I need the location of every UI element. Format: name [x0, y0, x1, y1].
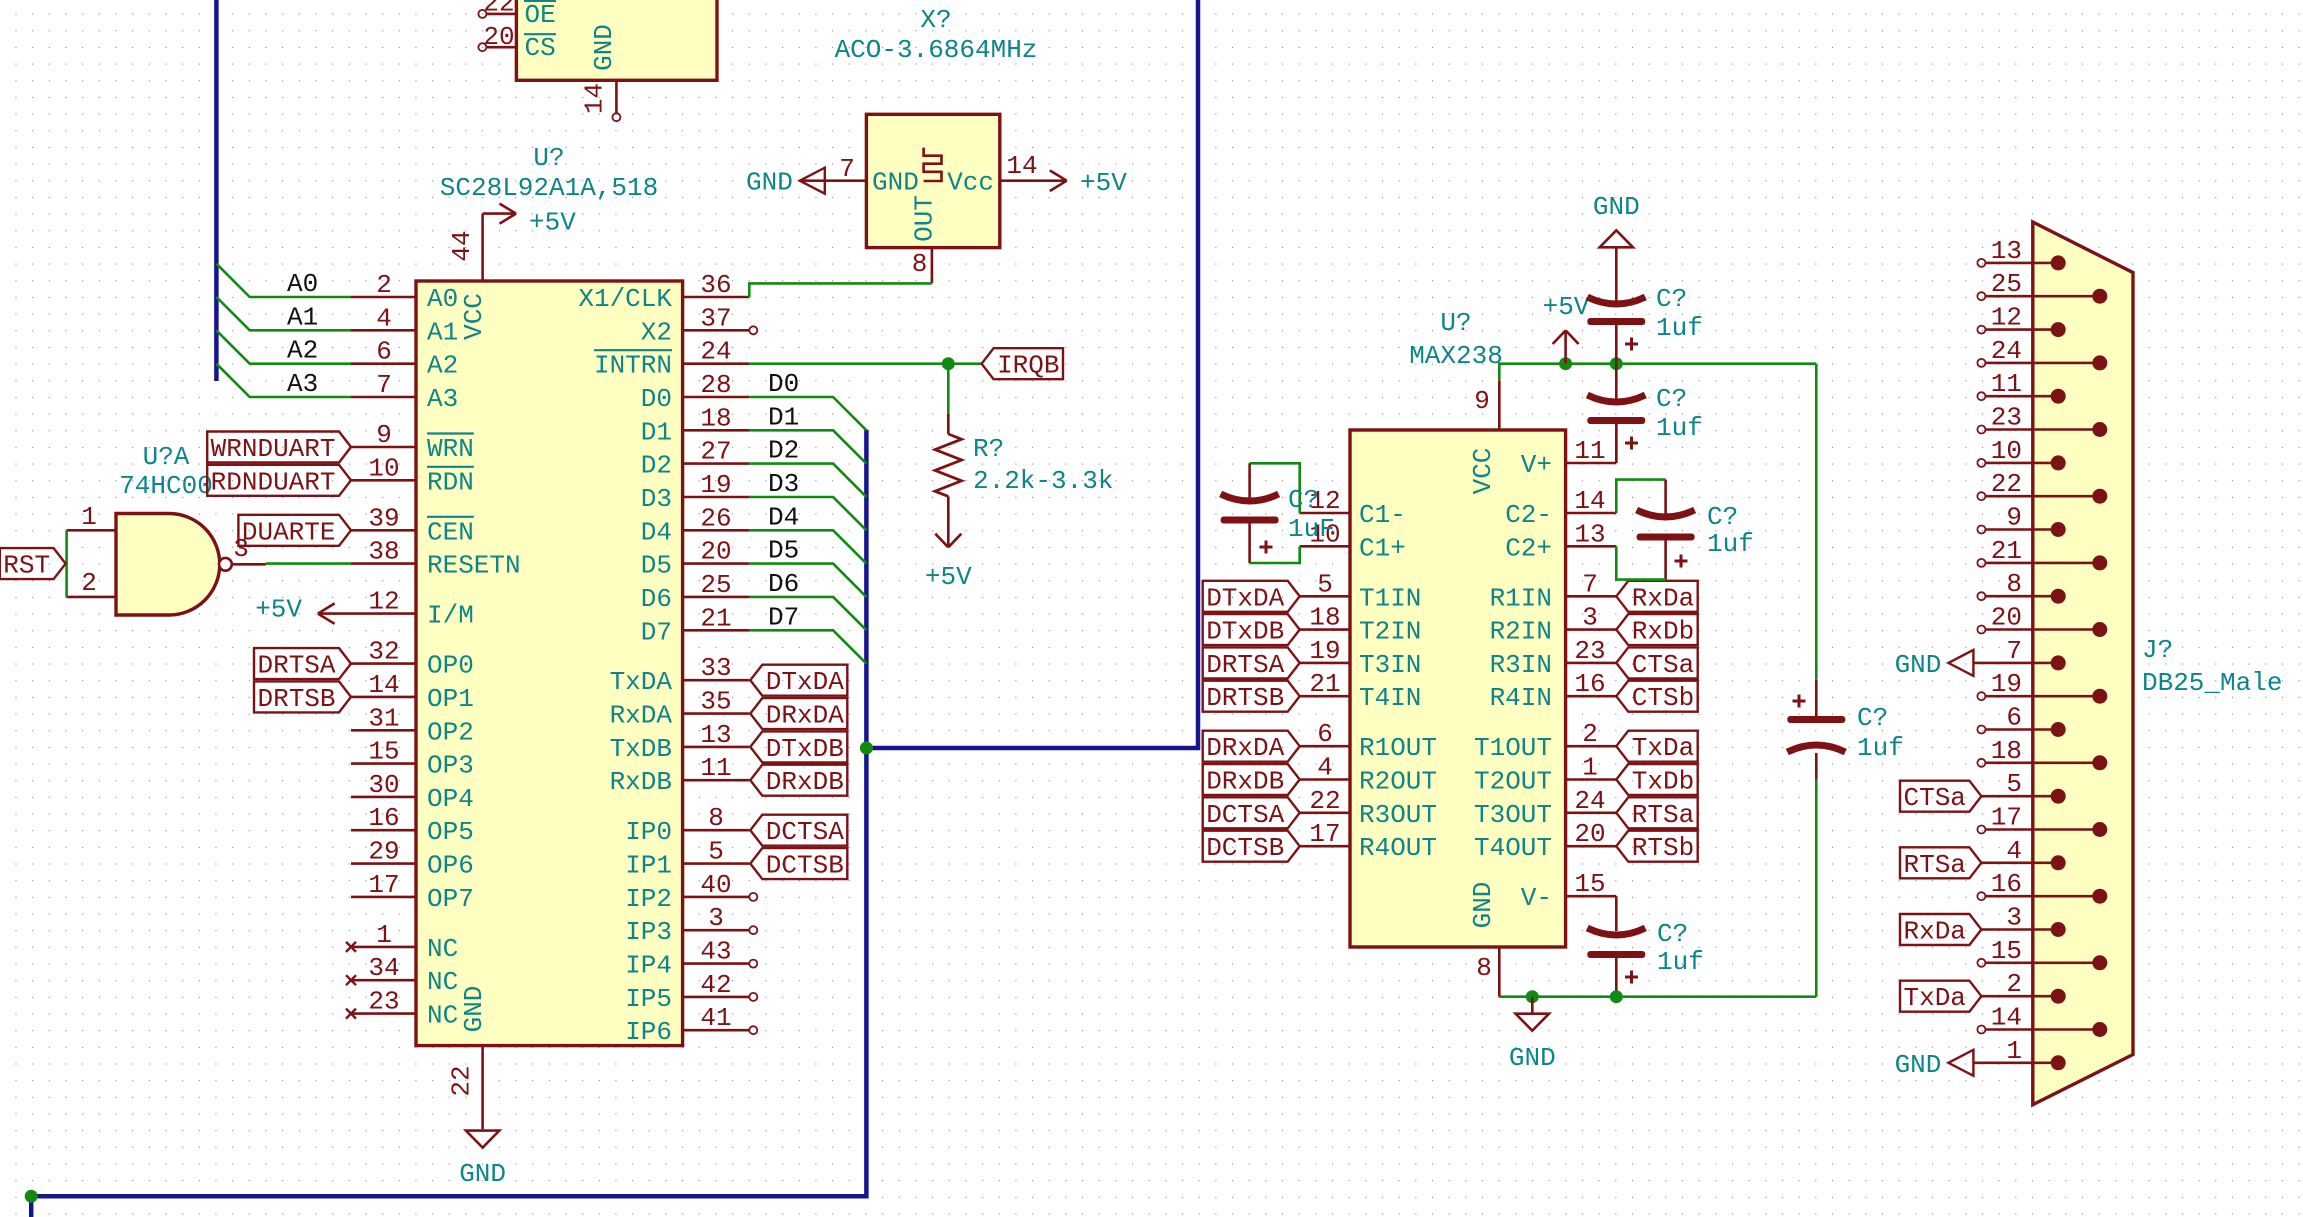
svg-text:R?: R? — [973, 434, 1004, 464]
svg-text:A2: A2 — [427, 351, 458, 381]
svg-text:6: 6 — [2006, 703, 2022, 733]
svg-text:IP1: IP1 — [625, 851, 672, 881]
global label TxDb at MAX238 — [1616, 764, 1697, 795]
junction bus TxDB level — [860, 742, 873, 755]
svg-text:19: 19 — [1309, 636, 1340, 666]
svg-text:R1OUT: R1OUT — [1359, 733, 1437, 763]
ground symbol below DUART — [466, 1131, 499, 1148]
svg-text:32: 32 — [368, 637, 399, 667]
svg-text:7: 7 — [839, 154, 855, 184]
svg-text:+5V: +5V — [1543, 292, 1590, 322]
DB25 pin 25 — [1977, 292, 1985, 300]
svg-text:12: 12 — [1991, 303, 2022, 333]
svg-text:3: 3 — [708, 903, 724, 933]
capacitor C? 1uf second (rail to V+) — [1615, 364, 1618, 399]
svg-text:X?: X? — [920, 5, 951, 35]
DUART pin 8 IP0 — [683, 829, 750, 832]
svg-text:3: 3 — [1582, 603, 1598, 633]
DUART pin 36 X1/CLK — [683, 296, 750, 299]
svg-text:A2: A2 — [287, 336, 318, 366]
DB25 pin 13 — [1977, 259, 1985, 267]
global label DTxDA at DUART — [750, 665, 847, 696]
svg-text:DTxDB: DTxDB — [766, 734, 844, 764]
global label TxDa at DB25 pin 2 — [1900, 981, 1981, 1012]
wire INTRN to IRQB — [749, 362, 981, 365]
svg-text:39: 39 — [368, 503, 399, 533]
svg-text:DUARTE: DUARTE — [242, 517, 336, 547]
svg-text:20: 20 — [1991, 603, 2022, 633]
svg-text:1uF: 1uF — [1288, 514, 1335, 544]
DB25 pin 12 — [1977, 326, 1985, 334]
svg-text:14: 14 — [580, 83, 610, 114]
svg-text:1: 1 — [2006, 1036, 2022, 1066]
svg-text:IP6: IP6 — [625, 1017, 672, 1047]
svg-text:D6: D6 — [641, 584, 672, 614]
junction bus bottom left — [25, 1190, 38, 1203]
global label CTSa at DB25 pin 5 — [1900, 781, 1981, 812]
global label DRTSA at MAX238 — [1203, 647, 1300, 678]
svg-text:D7: D7 — [641, 617, 672, 647]
svg-text:RxDa: RxDa — [1632, 583, 1694, 613]
svg-text:OP5: OP5 — [427, 817, 474, 847]
DB25 pin 10 — [1977, 459, 1985, 467]
NAND output bubble — [219, 558, 232, 571]
DB25 pin 7 — [1973, 662, 2058, 665]
DUART pin 1 NC — [351, 946, 416, 949]
junction +5V rail at capacitor — [1610, 357, 1623, 370]
svg-text:WRN: WRN — [427, 434, 474, 464]
svg-text:1uf: 1uf — [1656, 313, 1703, 343]
svg-text:1: 1 — [81, 502, 97, 532]
svg-text:27: 27 — [700, 437, 731, 467]
DUART pin 16 OP5 — [351, 829, 416, 832]
svg-text:RESETN: RESETN — [427, 551, 521, 581]
svg-text:37: 37 — [700, 303, 731, 333]
svg-text:1: 1 — [1582, 753, 1598, 783]
svg-text:IP3: IP3 — [625, 917, 672, 947]
svg-text:OUT: OUT — [910, 195, 940, 242]
svg-text:D4: D4 — [768, 502, 799, 532]
DUART pin 41 IP6 — [683, 1029, 750, 1032]
svg-text:DRxDA: DRxDA — [766, 701, 844, 731]
svg-text:GND: GND — [459, 1159, 506, 1189]
svg-text:6: 6 — [376, 337, 392, 367]
svg-text:OP3: OP3 — [427, 751, 474, 781]
svg-text:GND: GND — [746, 168, 793, 198]
global label DTxDB at DUART — [750, 731, 847, 762]
DB25 pin 19 — [1977, 692, 1985, 700]
capacitor C? 1uf top (GND to +5V rail) — [1615, 247, 1618, 301]
svg-text:23: 23 — [1991, 403, 2022, 433]
svg-text:R3OUT: R3OUT — [1359, 800, 1437, 830]
DUART pin 20 D5 — [683, 562, 750, 565]
global label DTxDB at MAX238 — [1203, 614, 1300, 645]
oscillator pin 14 Vcc — [1000, 179, 1067, 182]
wire D4 to bus — [749, 530, 866, 563]
svg-text:21: 21 — [1309, 669, 1340, 699]
pin 22 OE of partial IC — [478, 10, 486, 18]
DUART pin 25 D6 — [683, 596, 750, 599]
svg-text:40: 40 — [700, 870, 731, 900]
svg-text:D5: D5 — [768, 536, 799, 566]
MAX238 pin 21 T4IN — [1300, 695, 1350, 698]
MAX238 pin 17 R4OUT — [1300, 845, 1350, 848]
wire A1 from bus — [216, 297, 351, 330]
DUART pin 9 WRN — [351, 446, 416, 449]
global label RTSa at DB25 pin 4 — [1900, 847, 1981, 878]
svg-text:IP4: IP4 — [625, 951, 672, 981]
svg-text:12: 12 — [368, 587, 399, 617]
svg-text:V+: V+ — [1521, 450, 1552, 480]
svg-text:3: 3 — [2006, 903, 2022, 933]
global label DCTSB at DUART — [750, 848, 847, 879]
DUART pin 42 IP5 — [683, 996, 750, 999]
svg-text:T2IN: T2IN — [1359, 617, 1421, 647]
global label DCTSA at MAX238 — [1203, 797, 1300, 828]
svg-text:15: 15 — [368, 737, 399, 767]
DB25 pin 22 — [1977, 492, 1985, 500]
svg-text:20: 20 — [1574, 819, 1605, 849]
svg-text:16: 16 — [1991, 869, 2022, 899]
DUART pin 37 X2 — [683, 329, 750, 332]
svg-text:28: 28 — [700, 370, 731, 400]
DUART pin 12 I/M — [351, 612, 416, 615]
svg-text:TxDA: TxDA — [610, 667, 673, 697]
MAX238 pin 3 R2IN — [1566, 628, 1617, 631]
svg-text:T3IN: T3IN — [1359, 650, 1421, 680]
MAX238 pin 5 T1IN — [1300, 595, 1350, 598]
global label RST — [0, 548, 66, 579]
DUART pin 27 D2 — [683, 462, 750, 465]
svg-text:RxDb: RxDb — [1632, 617, 1694, 647]
svg-text:DTxDB: DTxDB — [1206, 617, 1284, 647]
svg-text:CEN: CEN — [427, 517, 474, 547]
DB25 pin 4 — [1981, 861, 2058, 864]
svg-text:1uf: 1uf — [1657, 947, 1704, 977]
svg-text:7: 7 — [2006, 636, 2022, 666]
svg-text:8: 8 — [708, 803, 724, 833]
svg-text:D0: D0 — [641, 384, 672, 414]
svg-text:D0: D0 — [768, 369, 799, 399]
svg-text:C?: C? — [1657, 919, 1688, 949]
bus vertical right with corner to data bus — [866, 0, 1198, 748]
svg-text:RxDB: RxDB — [610, 767, 672, 797]
svg-text:7: 7 — [1582, 569, 1598, 599]
svg-text:DCTSA: DCTSA — [766, 817, 844, 847]
svg-text:11: 11 — [1991, 369, 2022, 399]
svg-text:IP0: IP0 — [625, 817, 672, 847]
wire D5 to bus — [749, 564, 866, 597]
svg-text:WRNDUART: WRNDUART — [211, 434, 336, 464]
svg-text:U?A: U?A — [143, 442, 190, 472]
svg-text:GND: GND — [872, 168, 919, 198]
svg-text:24: 24 — [1991, 336, 2022, 366]
svg-text:SC28L92A1A,518: SC28L92A1A,518 — [440, 173, 658, 203]
power +5V arrow at DUART pin 44 — [483, 212, 516, 215]
wire D3 to bus — [749, 497, 866, 530]
svg-text:17: 17 — [1309, 819, 1340, 849]
svg-text:RDNDUART: RDNDUART — [211, 467, 336, 497]
svg-text:R4OUT: R4OUT — [1359, 833, 1437, 863]
IC U? DUART body — [416, 281, 683, 1046]
DB25 pin 16 — [1977, 892, 1985, 900]
svg-text:13: 13 — [700, 720, 731, 750]
svg-text:DCTSB: DCTSB — [1206, 833, 1284, 863]
DUART pin 31 OP2 — [351, 729, 416, 732]
svg-text:DRxDA: DRxDA — [1206, 733, 1284, 763]
DUART pin 43 IP4 — [683, 962, 750, 965]
svg-text:RTSa: RTSa — [1632, 800, 1694, 830]
svg-text:INTRN: INTRN — [594, 351, 672, 381]
svg-text:TxDa: TxDa — [1903, 983, 1965, 1013]
svg-text:4: 4 — [376, 303, 392, 333]
DUART pin 17 OP7 — [351, 896, 416, 899]
MAX238 pin 19 T3IN — [1300, 662, 1350, 665]
DUART pin 4 A1 — [351, 329, 416, 332]
DB25 pin 18 — [1977, 759, 1985, 767]
svg-text:36: 36 — [700, 270, 731, 300]
svg-text:22: 22 — [447, 1065, 477, 1096]
wire D1 to bus — [749, 430, 866, 463]
svg-text:OP6: OP6 — [427, 851, 474, 881]
svg-text:OP0: OP0 — [427, 651, 474, 681]
global label GND at DB25 pin 7 — [1948, 650, 1973, 676]
DUART pin 6 A2 — [351, 362, 416, 365]
svg-text:18: 18 — [700, 403, 731, 433]
bus vertical left — [214, 0, 219, 381]
DUART pin 24 INTRN — [683, 362, 750, 365]
svg-text:10: 10 — [1991, 436, 2022, 466]
svg-text:CTSa: CTSa — [1903, 783, 1965, 813]
svg-text:41: 41 — [700, 1003, 731, 1033]
svg-text:4: 4 — [1317, 753, 1333, 783]
svg-text:RST: RST — [3, 551, 50, 581]
svg-text:IP5: IP5 — [625, 984, 672, 1014]
MAX238 pin 13 C2+ — [1566, 545, 1617, 548]
svg-text:D3: D3 — [768, 469, 799, 499]
svg-text:2: 2 — [2006, 969, 2022, 999]
svg-text:8: 8 — [912, 249, 928, 279]
svg-text:14: 14 — [1991, 1003, 2022, 1033]
svg-text:2: 2 — [376, 270, 392, 300]
DUART pin 18 D1 — [683, 429, 750, 432]
power +5V arrow at oscillator pin 14 — [1050, 170, 1067, 180]
bus bottom stub — [29, 1196, 34, 1217]
MAX238 pin 20 T4OUT — [1566, 845, 1617, 848]
DB25 pin 15 — [1977, 959, 1985, 967]
svg-text:C2+: C2+ — [1505, 533, 1552, 563]
capacitor C? 1uf at C2 — [1664, 480, 1667, 514]
svg-text:CS: CS — [525, 33, 556, 63]
svg-text:NC: NC — [427, 1001, 458, 1031]
svg-text:T4OUT: T4OUT — [1474, 833, 1552, 863]
svg-text:R4IN: R4IN — [1490, 683, 1552, 713]
svg-text:VCC: VCC — [459, 293, 489, 340]
svg-text:D4: D4 — [641, 517, 672, 547]
wire MAX238 pin9 to +5V rail — [1499, 364, 1816, 381]
wire V+ corner (pin 11) — [1615, 424, 1618, 463]
svg-text:R2IN: R2IN — [1490, 617, 1552, 647]
DB25 pin 2 — [1981, 995, 2058, 998]
MAX238 pin 24 T3OUT — [1566, 811, 1617, 814]
svg-text:11: 11 — [700, 753, 731, 783]
svg-text:1uf: 1uf — [1707, 529, 1754, 559]
DB25 pin 21 — [1977, 559, 1985, 567]
DUART pin 21 D7 — [683, 629, 750, 632]
IC U? MAX238 body — [1350, 430, 1566, 947]
svg-text:TxDb: TxDb — [1632, 767, 1694, 797]
svg-text:TxDa: TxDa — [1632, 733, 1694, 763]
svg-text:A3: A3 — [427, 384, 458, 414]
pin 14 GND of partial IC — [615, 80, 618, 113]
DUART pin 15 OP3 — [351, 762, 416, 765]
DUART pin 2 A0 — [351, 296, 416, 299]
svg-text:18: 18 — [1309, 603, 1340, 633]
svg-text:DTxDA: DTxDA — [766, 667, 844, 697]
svg-text:20: 20 — [483, 22, 514, 52]
svg-text:+5V: +5V — [255, 595, 302, 625]
svg-text:5: 5 — [2006, 769, 2022, 799]
wire NAND output to RESETN — [266, 562, 351, 565]
global label GND at DB25 pin 1 — [1948, 1050, 1973, 1076]
wire +5V rail right vertical upper — [1815, 364, 1818, 680]
svg-text:OP7: OP7 — [427, 884, 474, 914]
svg-text:4: 4 — [2006, 836, 2022, 866]
svg-text:A1: A1 — [287, 302, 318, 332]
MAX238 pin 22 R3OUT — [1300, 811, 1350, 814]
svg-text:CTSa: CTSa — [1632, 650, 1694, 680]
partial IC U? (top, cut off) body — [516, 0, 717, 80]
DUART pin 5 IP1 — [683, 862, 750, 865]
svg-text:7: 7 — [376, 370, 392, 400]
svg-text:9: 9 — [1474, 386, 1490, 416]
svg-text:31: 31 — [368, 703, 399, 733]
MAX238 pin 7 R1IN — [1566, 595, 1617, 598]
svg-text:RTSb: RTSb — [1632, 833, 1694, 863]
global label DUARTE — [238, 515, 351, 546]
global label CTSb at MAX238 — [1616, 681, 1697, 712]
global label DRTSA — [254, 648, 351, 679]
svg-text:D2: D2 — [641, 451, 672, 481]
svg-text:C?: C? — [1656, 384, 1687, 414]
DUART pin 11 RxDB — [683, 779, 750, 782]
ground symbol inverted above capacitor C? — [1600, 230, 1633, 247]
DB25 pin 3 — [1981, 928, 2058, 931]
wire D6 to bus — [749, 597, 866, 630]
svg-text:26: 26 — [700, 503, 731, 533]
MAX238 pin 16 R4IN — [1566, 695, 1617, 698]
global label DRTSB at MAX238 — [1203, 681, 1300, 712]
MAX238 pin 12 C1- — [1300, 512, 1350, 515]
svg-text:DRTSA: DRTSA — [1206, 650, 1284, 680]
svg-text:2.2k-3.3k: 2.2k-3.3k — [973, 466, 1113, 496]
svg-text:D1: D1 — [768, 402, 799, 432]
svg-text:17: 17 — [368, 870, 399, 900]
svg-text:OE: OE — [525, 0, 556, 30]
svg-text:10: 10 — [368, 453, 399, 483]
svg-text:21: 21 — [700, 603, 731, 633]
svg-text:T1IN: T1IN — [1359, 583, 1421, 613]
svg-text:C?: C? — [1656, 284, 1687, 314]
svg-text:GND: GND — [459, 986, 489, 1033]
global label TxDa at MAX238 — [1616, 731, 1697, 762]
svg-text:5: 5 — [1317, 569, 1333, 599]
svg-text:U?: U? — [1440, 308, 1471, 338]
wire V- corner to capacitor — [1615, 896, 1618, 931]
svg-text:14: 14 — [1006, 151, 1037, 181]
svg-text:+5V: +5V — [1080, 168, 1127, 198]
pin 20 CS of partial IC — [478, 43, 486, 51]
global label RxDa at DB25 pin 3 — [1900, 914, 1981, 945]
wire oscillator OUT to X1/CLK — [749, 283, 932, 297]
svg-text:19: 19 — [1991, 669, 2022, 699]
svg-text:42: 42 — [700, 970, 731, 1000]
bus data vertical and bottom horizontal — [31, 430, 866, 1196]
MAX238 pin 8 GND bottom — [1498, 947, 1501, 997]
global label DCTSA at DUART — [750, 815, 847, 846]
svg-text:VCC: VCC — [1468, 448, 1498, 495]
MAX238 pin 9 VCC top — [1498, 380, 1501, 430]
svg-text:23: 23 — [368, 987, 399, 1017]
global label RxDa at MAX238 — [1616, 581, 1697, 612]
svg-text:15: 15 — [1574, 869, 1605, 899]
svg-text:A1: A1 — [427, 317, 458, 347]
svg-text:D7: D7 — [768, 602, 799, 632]
DUART pin 29 OP6 — [351, 862, 416, 865]
svg-text:DRTSB: DRTSB — [257, 684, 335, 714]
global label DRxDA at MAX238 — [1203, 731, 1300, 762]
svg-text:TxDB: TxDB — [610, 734, 672, 764]
DUART pin 30 OP4 — [351, 796, 416, 799]
oscillator pin 8 OUT — [931, 248, 934, 284]
svg-text:DRTSB: DRTSB — [1206, 683, 1284, 713]
DUART pin 39 CEN — [351, 529, 416, 532]
DB25 pin 1 — [1973, 1062, 2058, 1065]
global label IRQB — [982, 348, 1063, 379]
DUART pin 23 NC — [351, 1012, 416, 1015]
svg-text:25: 25 — [1991, 269, 2022, 299]
svg-text:20: 20 — [700, 537, 731, 567]
svg-text:MAX238: MAX238 — [1409, 341, 1503, 371]
DUART pin 33 TxDA — [683, 679, 750, 682]
svg-text:Vcc: Vcc — [947, 168, 994, 198]
svg-text:RxDa: RxDa — [1903, 917, 1965, 947]
svg-text:DB25_Male: DB25_Male — [2142, 668, 2282, 698]
wire A0 from bus — [216, 264, 351, 297]
svg-text:24: 24 — [700, 337, 731, 367]
global label DRxDA at DUART — [750, 698, 847, 729]
svg-text:I/M: I/M — [427, 601, 474, 631]
svg-text:19: 19 — [700, 470, 731, 500]
svg-text:13: 13 — [1574, 519, 1605, 549]
svg-text:DRTSA: DRTSA — [257, 651, 335, 681]
svg-text:16: 16 — [368, 803, 399, 833]
NAND gate U?A body — [116, 514, 220, 616]
oscillator X? body — [866, 114, 999, 247]
svg-text:23: 23 — [1574, 636, 1605, 666]
DB25 pin 14 — [1977, 1026, 1985, 1034]
svg-text:GND: GND — [1895, 650, 1942, 680]
svg-text:NC: NC — [427, 967, 458, 997]
svg-text:OP1: OP1 — [427, 684, 474, 714]
NAND pin 2 — [67, 596, 116, 599]
svg-text:U?: U? — [533, 143, 564, 173]
oscillator pin 7 GND — [800, 179, 867, 182]
DUART pin 40 IP2 — [683, 896, 750, 899]
DUART pin 10 RDN — [351, 479, 416, 482]
svg-text:R1IN: R1IN — [1490, 583, 1552, 613]
global label RxDb at MAX238 — [1616, 614, 1697, 645]
